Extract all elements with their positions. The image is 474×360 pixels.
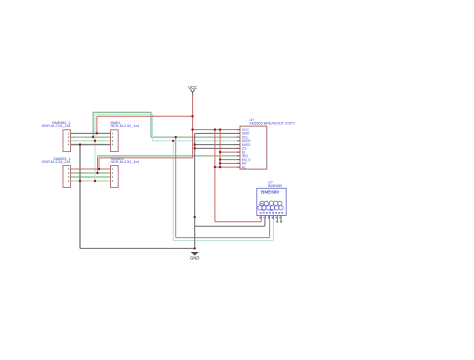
svg-text:BME680: BME680 — [268, 184, 282, 188]
svg-text:VCC: VCC — [188, 85, 197, 90]
svg-text:A1: A1 — [242, 165, 246, 169]
svg-text:HDR-M-2.54_1x4: HDR-M-2.54_1x4 — [111, 124, 140, 128]
svg-text:GND: GND — [190, 256, 199, 261]
svg-text:BME680: BME680 — [261, 190, 279, 195]
svg-text:HDR-M-2.54_1x4: HDR-M-2.54_1x4 — [111, 160, 140, 164]
svg-text:KE5605 BREAKOUT COPY: KE5605 BREAKOUT COPY — [250, 122, 296, 126]
svg-text:HDR-M-2.54_1x4: HDR-M-2.54_1x4 — [42, 124, 71, 128]
svg-text:HDR-M-2.54_1x4: HDR-M-2.54_1x4 — [42, 160, 71, 164]
